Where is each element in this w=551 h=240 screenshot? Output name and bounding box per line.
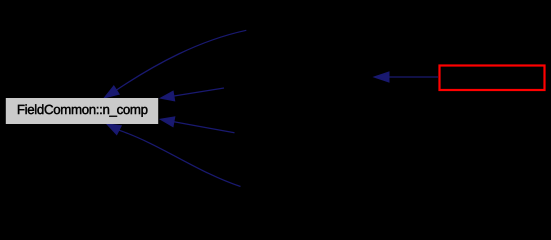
svg-text:FieldCommon::n_comp: FieldCommon::n_comp [17,102,148,117]
